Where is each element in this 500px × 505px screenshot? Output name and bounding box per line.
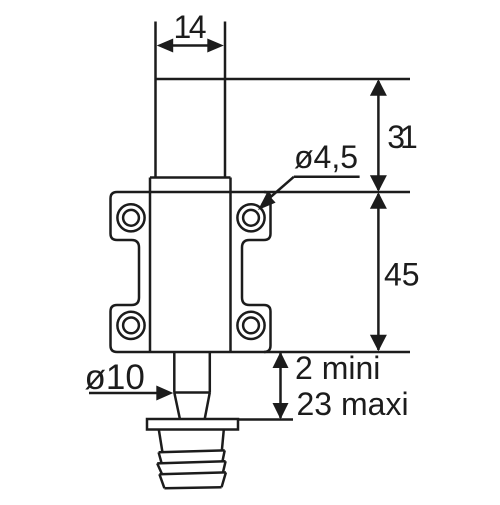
svg-text:2 mini: 2 mini (295, 350, 380, 386)
svg-text:31: 31 (387, 119, 418, 155)
svg-text:23 maxi: 23 maxi (297, 386, 409, 422)
svg-text:ø4,5: ø4,5 (294, 139, 358, 175)
svg-text:45: 45 (384, 256, 420, 292)
svg-text:ø10: ø10 (85, 358, 145, 397)
svg-text:14: 14 (174, 9, 207, 45)
